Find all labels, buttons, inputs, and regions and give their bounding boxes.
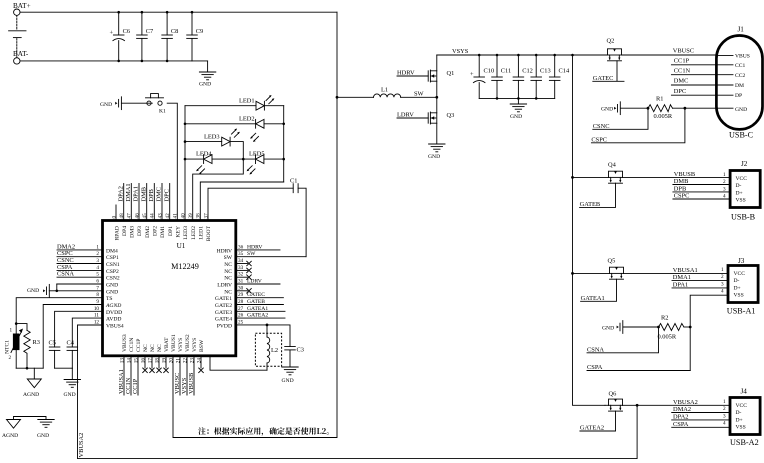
svg-text:21: 21 (175, 358, 181, 364)
svg-text:GND: GND (510, 114, 522, 120)
net CC1N (671, 67, 733, 74)
pin 16 NC (140, 344, 149, 373)
svg-text:16: 16 (140, 358, 146, 364)
transistor Q4 (573, 162, 731, 184)
svg-text:VCC: VCC (736, 403, 748, 409)
pin 4 CSP2 / net CSPA (57, 264, 119, 275)
wire VBUS4 to VBUSA2 net (78, 325, 638, 459)
svg-text:GATEA2: GATEA2 (580, 425, 604, 432)
net DPB (673, 185, 730, 192)
svg-text:LDRV: LDRV (247, 279, 262, 285)
svg-text:AGND: AGND (105, 303, 121, 309)
wire K1 to KEY pin41 (167, 103, 177, 220)
svg-text:LDRV: LDRV (217, 283, 232, 289)
net CSNA (587, 327, 659, 353)
LED LED3 (185, 129, 243, 160)
svg-text:CSPC: CSPC (591, 136, 607, 143)
svg-text:NC: NC (224, 276, 232, 282)
svg-text:GATEA1: GATEA1 (247, 306, 268, 312)
svg-text:CSPC: CSPC (674, 193, 690, 200)
svg-text:GND: GND (64, 392, 76, 398)
net HDRV (397, 70, 428, 77)
svg-text:USB-C: USB-C (729, 131, 754, 140)
svg-text:VSS: VSS (736, 198, 746, 204)
svg-text:CSP1: CSP1 (106, 255, 119, 261)
inductor L2 optional (dashed box) (255, 324, 281, 371)
svg-text:GATE2: GATE2 (215, 303, 232, 309)
svg-text:47: 47 (127, 213, 133, 219)
pin 41 KEY (173, 213, 182, 238)
pin 5 CSN2 / net CSNA (57, 271, 120, 282)
svg-text:6: 6 (96, 279, 99, 285)
svg-text:HDRV: HDRV (397, 70, 415, 77)
pin 31 LDRV (217, 279, 280, 289)
svg-text:+: + (110, 30, 114, 37)
svg-text:Q4: Q4 (608, 162, 617, 169)
svg-text:CSNC: CSNC (593, 123, 610, 130)
pin 24 BSW (196, 339, 205, 372)
svg-text:5: 5 (96, 272, 99, 278)
svg-text:CSPA: CSPA (587, 364, 603, 371)
svg-text:DMA1: DMA1 (673, 274, 691, 281)
capacitor C14 (549, 55, 570, 98)
svg-text:LED1: LED1 (239, 98, 255, 105)
svg-text:DM2: DM2 (145, 226, 151, 238)
svg-text:GND: GND (106, 289, 118, 295)
svg-text:2: 2 (9, 355, 12, 361)
svg-text:DMB: DMB (674, 178, 689, 185)
svg-text:37: 37 (203, 213, 209, 219)
capacitor C1 (208, 178, 306, 257)
svg-text:DPA2: DPA2 (117, 186, 124, 201)
pin 43 DM1 / net DMC (156, 184, 167, 238)
svg-text:DPC: DPC (674, 88, 686, 95)
svg-text:D+: D+ (736, 190, 743, 196)
svg-text:13: 13 (119, 358, 125, 364)
pin 15 CC1P (132, 339, 142, 395)
net DPA2 (672, 413, 730, 420)
svg-text:R2: R2 (661, 315, 668, 322)
pin 21 VSYS / net VBUSC (174, 338, 184, 395)
op-amp U1 M12249 body (103, 221, 236, 356)
pin 8 TS (96, 292, 112, 302)
svg-text:38: 38 (196, 213, 202, 219)
svg-text:C5: C5 (49, 340, 56, 347)
svg-text:LED2: LED2 (191, 226, 197, 240)
svg-text:M12249: M12249 (171, 262, 199, 271)
resistor R1 0.005R (647, 96, 733, 120)
svg-text:BOOT: BOOT (206, 225, 212, 241)
svg-text:20: 20 (168, 358, 174, 364)
svg-text:DM1: DM1 (160, 226, 166, 238)
svg-text:Q1: Q1 (447, 70, 455, 77)
wire Q2 gate / net GATEC (593, 61, 624, 82)
svg-text:7: 7 (96, 285, 99, 291)
svg-text:SW: SW (247, 251, 256, 257)
svg-text:CSN2: CSN2 (106, 276, 120, 282)
svg-text:USB-A1: USB-A1 (727, 307, 756, 316)
svg-text:LED3: LED3 (183, 226, 189, 240)
capacitor C13 (531, 55, 551, 100)
svg-text:C12: C12 (522, 68, 533, 75)
wire LED left rail (184, 106, 187, 221)
svg-text:RPAD: RPAD (114, 226, 120, 240)
connector J2 USB-B (723, 160, 760, 222)
capacitor C6 (110, 11, 131, 62)
svg-text:DVDD: DVDD (106, 310, 122, 316)
svg-text:NC: NC (143, 344, 149, 352)
svg-text:VSYS: VSYS (178, 338, 184, 352)
net CSPC (591, 108, 685, 143)
svg-text:D-: D- (736, 410, 742, 416)
svg-text:GND: GND (37, 433, 49, 439)
pin 19 NC (161, 337, 170, 373)
capacitor C8 (162, 11, 179, 62)
svg-text:4: 4 (721, 289, 724, 295)
svg-text:GATEB: GATEB (247, 299, 265, 305)
resistor R2 0.005R (657, 315, 692, 341)
pin 0 RPAD (111, 205, 120, 240)
svg-text:GATEA1: GATEA1 (581, 295, 605, 302)
svg-text:R1: R1 (656, 96, 663, 103)
svg-text:C9: C9 (196, 28, 203, 35)
capacitor C10 (470, 55, 494, 98)
pin 9 AGND (96, 299, 121, 309)
svg-text:C4: C4 (67, 340, 75, 347)
svg-text:41: 41 (173, 213, 179, 219)
svg-text:NC: NC (224, 262, 232, 268)
net CSNC (593, 108, 648, 130)
pin 17 NC (147, 344, 156, 373)
svg-text:BAT-: BAT- (13, 50, 29, 58)
svg-text:HDRV: HDRV (217, 248, 232, 254)
pin 32 NC (224, 272, 251, 282)
svg-text:1: 1 (723, 172, 726, 178)
svg-text:L2: L2 (271, 347, 278, 354)
svg-text:DM4: DM4 (106, 248, 118, 254)
svg-text:3: 3 (723, 187, 726, 193)
svg-text:D-: D- (734, 278, 740, 284)
inductor L1 (336, 87, 401, 99)
svg-text:GND: GND (100, 102, 112, 108)
LED LED1 (185, 95, 284, 110)
svg-text:2: 2 (721, 274, 724, 280)
pin 34 NC (224, 258, 251, 268)
net CSPA (J4 pin4) (672, 421, 730, 428)
svg-text:U1: U1 (177, 242, 186, 250)
svg-text:3: 3 (723, 414, 726, 420)
svg-text:VBUSA1: VBUSA1 (673, 267, 698, 274)
svg-text:28: 28 (238, 299, 244, 305)
transistor Q3 (428, 97, 454, 144)
pin 36 HDRV (217, 244, 280, 254)
svg-text:LED4: LED4 (196, 151, 212, 158)
svg-text:R3: R3 (33, 339, 40, 346)
svg-text:1: 1 (723, 399, 726, 405)
svg-text:SW: SW (414, 90, 425, 97)
pin 33 NC (224, 265, 251, 275)
pin 10 DVDD (94, 306, 122, 316)
svg-text:GND: GND (735, 107, 747, 113)
svg-text:2: 2 (723, 179, 726, 185)
svg-text:42: 42 (165, 213, 171, 219)
ground under C3 (282, 367, 299, 384)
svg-text:J1: J1 (738, 26, 745, 34)
svg-text:GATE1: GATE1 (215, 296, 232, 302)
svg-text:NC: NC (224, 269, 232, 275)
connector J3 USB-A1 (721, 257, 758, 316)
svg-text:DPA2: DPA2 (673, 413, 688, 420)
node BAT- (13, 50, 29, 64)
svg-text:DP1: DP1 (168, 226, 174, 236)
svg-text:HDRV: HDRV (247, 244, 262, 250)
wire BAT- rail (20, 60, 208, 62)
pin 22 VBUS2 / net VSYS (181, 334, 191, 395)
wire R3/NTC bottom node (16, 367, 43, 369)
capacitor C5 (49, 311, 103, 368)
pin 12 VBUS4 (94, 320, 124, 330)
svg-text:CSNA: CSNA (57, 271, 74, 278)
pin 14 CC1N (125, 338, 135, 395)
ground under C10-C14 (510, 98, 527, 120)
pin 29 GATE1 / net GATEC (215, 292, 283, 302)
resistor R3 (16, 324, 40, 370)
svg-text:Q5: Q5 (608, 258, 616, 265)
svg-text:DMA2: DMA2 (673, 406, 691, 413)
wire Q6 gate / net GATEA2 (580, 411, 616, 431)
wire AGND pin9 (43, 305, 102, 369)
svg-text:VBUSC: VBUSC (174, 373, 181, 394)
svg-text:Q3: Q3 (447, 112, 455, 119)
svg-text:31: 31 (238, 279, 244, 285)
pin 6 GND (57, 279, 118, 289)
svg-text:LED2: LED2 (239, 116, 255, 123)
svg-text:VSYS: VSYS (192, 338, 198, 352)
pin 42 DP1 / net DPC (163, 184, 174, 236)
svg-text:45: 45 (142, 213, 148, 219)
wire capacitor bottom rail (479, 97, 555, 99)
net DPA1 (672, 281, 728, 288)
svg-text:VBUS4: VBUS4 (106, 324, 124, 330)
svg-text:CC1: CC1 (735, 63, 745, 69)
svg-text:VBUS3: VBUS3 (122, 334, 128, 352)
svg-text:+: + (470, 71, 474, 78)
svg-text:SW: SW (224, 255, 233, 261)
svg-text:C8: C8 (171, 28, 178, 35)
transistor Q5 (573, 258, 729, 280)
net LDRV (397, 112, 428, 119)
svg-text:DMB: DMB (140, 187, 147, 202)
wire LED right rail to pin38 (200, 182, 283, 221)
svg-text:PVDD: PVDD (217, 323, 232, 329)
svg-text:GND: GND (601, 107, 613, 113)
ground battery GND (199, 61, 216, 88)
svg-text:34: 34 (238, 258, 244, 264)
svg-text:KEY: KEY (176, 226, 182, 238)
pin 25 PVDD (217, 319, 244, 329)
svg-text:15: 15 (133, 358, 139, 364)
svg-text:GATEA2: GATEA2 (247, 313, 268, 319)
wire J1 VBUS inside (716, 55, 733, 57)
svg-text:D-: D- (736, 183, 742, 189)
svg-text:VBUSA1: VBUSA1 (118, 369, 125, 394)
svg-text:DPB: DPB (674, 185, 686, 192)
wire J3 VSS to R2 (690, 295, 728, 370)
svg-text:35: 35 (238, 251, 244, 257)
pin 40 LED3 (180, 213, 189, 240)
svg-text:VBAT: VBAT (164, 337, 170, 352)
svg-text:LED3: LED3 (204, 133, 220, 140)
svg-text:0: 0 (111, 216, 117, 219)
wire Q4 gate / net GATEB (580, 183, 616, 208)
pin 26 GATE4 / net GATEA2 (215, 313, 285, 323)
svg-text:CC1P: CC1P (674, 58, 690, 65)
wire L1 to SW node (401, 90, 438, 98)
svg-text:DPA1: DPA1 (673, 281, 688, 288)
pin 28 GATE2 / net GATEB (215, 299, 283, 309)
battery BT1 (9, 15, 26, 57)
svg-text:C1: C1 (290, 178, 297, 185)
svg-text:C3: C3 (297, 347, 304, 354)
svg-text:39: 39 (188, 213, 194, 219)
pin 39 LED2 (188, 213, 197, 240)
svg-text:CC1N: CC1N (129, 338, 135, 352)
pin 37 BOOT (203, 213, 212, 241)
svg-text:J3: J3 (738, 257, 745, 265)
ground AGND (thermistor) (23, 368, 41, 398)
svg-text:30: 30 (238, 285, 244, 291)
svg-text:L1: L1 (381, 87, 388, 94)
svg-text:LDRV: LDRV (397, 112, 414, 119)
svg-text:3: 3 (96, 258, 99, 264)
svg-text:AGND: AGND (2, 433, 18, 439)
svg-text:C10: C10 (484, 68, 495, 75)
svg-text:2: 2 (96, 251, 99, 257)
svg-text:LED1: LED1 (199, 226, 205, 240)
pin 35 SW (224, 251, 306, 261)
ground GND (C5/C4) (64, 368, 81, 398)
svg-text:43: 43 (157, 213, 163, 219)
svg-text:CC1N: CC1N (674, 67, 691, 74)
wire BAT+ top rail (20, 11, 337, 13)
svg-text:K1: K1 (159, 109, 166, 115)
svg-text:C6: C6 (123, 28, 130, 35)
svg-text:14: 14 (126, 358, 132, 364)
svg-text:J4: J4 (741, 387, 748, 395)
svg-text:1: 1 (721, 267, 724, 273)
wire LED3/4/5 junction to pin39 (193, 159, 244, 220)
wire VSYS rail (437, 48, 608, 56)
svg-text:4: 4 (723, 194, 726, 200)
pin 18 NC (154, 344, 163, 373)
svg-text:VBUSA2: VBUSA2 (78, 433, 85, 458)
svg-text:DP3: DP3 (137, 226, 143, 236)
thermistor NTC1 (5, 322, 24, 368)
svg-text:26: 26 (238, 313, 244, 319)
svg-text:DP: DP (735, 93, 742, 99)
svg-text:J2: J2 (741, 160, 748, 168)
svg-text:VSS: VSS (734, 293, 744, 299)
svg-text:GND: GND (27, 288, 39, 294)
svg-text:C13: C13 (540, 68, 551, 75)
svg-text:48: 48 (119, 213, 125, 219)
svg-text:17: 17 (147, 358, 153, 364)
LED LED2 (185, 116, 284, 142)
capacitor C4 (67, 318, 103, 368)
svg-text:LED5: LED5 (249, 151, 265, 158)
svg-text:NC: NC (157, 344, 163, 352)
net DMA1 (672, 274, 728, 281)
svg-text:CSP2: CSP2 (106, 269, 119, 275)
pin 1 DM4 / net DMA2 (57, 243, 118, 254)
svg-text:DM3: DM3 (130, 226, 136, 238)
svg-text:GND: GND (428, 154, 440, 160)
svg-text:VSS: VSS (736, 425, 746, 431)
svg-text:40: 40 (180, 213, 186, 219)
svg-text:USB-A2: USB-A2 (730, 438, 759, 447)
svg-text:VCC: VCC (734, 271, 746, 277)
transistor Q6 (605, 391, 730, 412)
svg-text:CC1N: CC1N (125, 377, 132, 394)
ground port at R2 (602, 321, 659, 334)
svg-text:46: 46 (134, 213, 140, 219)
pin 23 VSYS / net VBUSB (188, 338, 198, 395)
net CSPC (J2 pin4) (673, 193, 730, 200)
net DMA2 (672, 406, 730, 413)
svg-text:CSN1: CSN1 (106, 262, 120, 268)
pin 46 DP3 / net DPA1 (133, 184, 144, 236)
pin 13 VBUS3 / net VBUSA1 (118, 334, 128, 395)
pin 27 GATE3 / net GATEA1 (215, 306, 285, 316)
svg-text:DP2: DP2 (153, 226, 159, 236)
net DMB (673, 178, 730, 185)
ground port at R1 (601, 102, 648, 115)
pin 47 DM3 / net DMA1 (125, 183, 136, 237)
svg-text:DPA1: DPA1 (133, 186, 140, 201)
svg-text:DP4: DP4 (122, 226, 128, 236)
connector J1 USB-C (716, 26, 762, 140)
pushbutton K1 (146, 94, 167, 115)
note box text (198, 427, 329, 436)
svg-text:VBUSA2: VBUSA2 (673, 399, 698, 406)
svg-text:GATEC: GATEC (247, 292, 265, 298)
svg-text:VBUSB: VBUSB (188, 373, 195, 394)
svg-text:0.005R: 0.005R (654, 113, 673, 120)
transistor Q2 (605, 38, 717, 61)
svg-text:VBUS1: VBUS1 (171, 334, 177, 352)
svg-text:32: 32 (238, 272, 244, 278)
pin 30 NC (224, 285, 251, 295)
svg-text:BSW: BSW (199, 339, 205, 352)
pin 11 AVDD (94, 313, 121, 323)
svg-text:USB-B: USB-B (731, 213, 756, 222)
svg-text:36: 36 (238, 244, 244, 250)
svg-text:GND: GND (282, 378, 294, 384)
svg-text:GATEC: GATEC (593, 75, 614, 82)
svg-text:D+: D+ (734, 285, 741, 291)
net CSPA (587, 364, 690, 371)
pin 20 VBAT wire to battery (168, 334, 177, 363)
svg-text:DPB: DPB (148, 189, 155, 201)
svg-text:C14: C14 (559, 68, 570, 75)
svg-text:29: 29 (238, 292, 244, 298)
svg-text:1: 1 (10, 328, 13, 334)
svg-text:CC1P: CC1P (136, 339, 142, 352)
pin 3 CSN1 / net CSNC (57, 257, 120, 268)
svg-text:NC: NC (224, 289, 232, 295)
pin 2 CSP1 / net CSPC (57, 250, 119, 261)
svg-text:GATEB: GATEB (580, 201, 601, 208)
